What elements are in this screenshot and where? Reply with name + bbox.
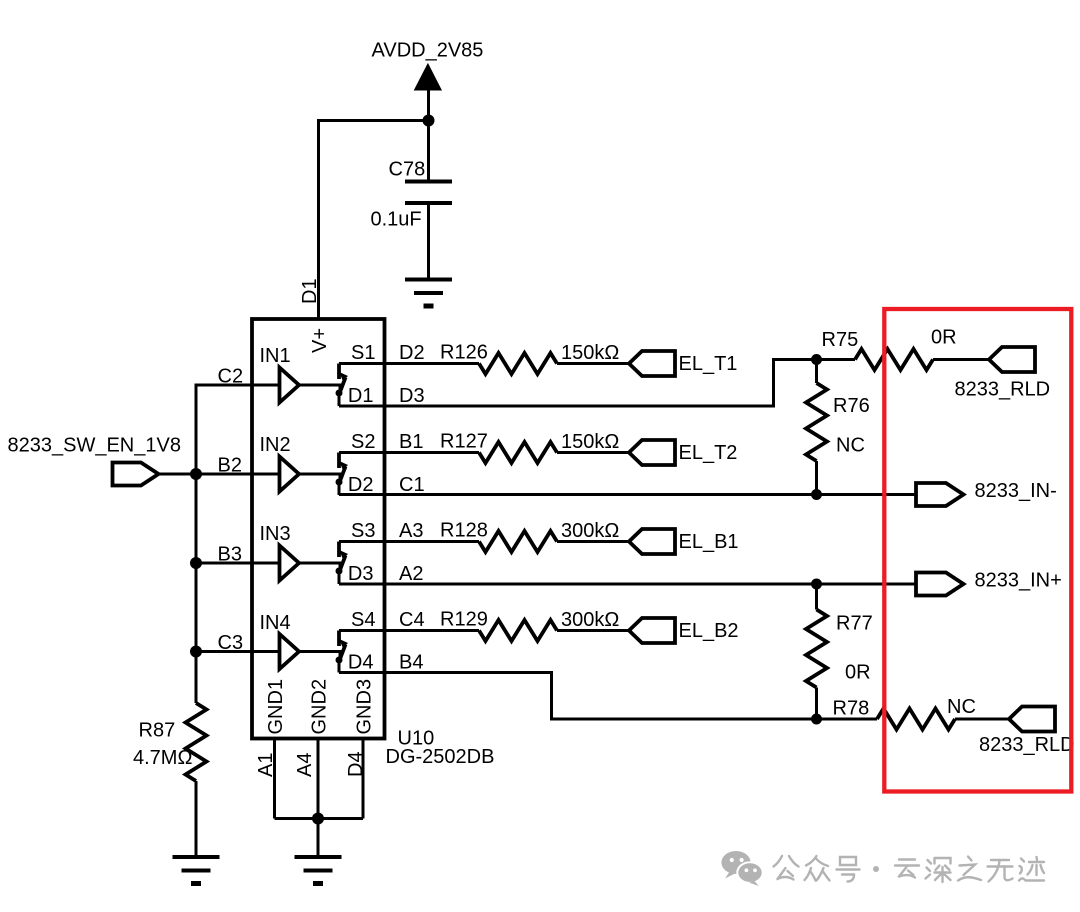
switch SW1 arm <box>340 378 346 393</box>
wire C78 to ground <box>427 203 430 280</box>
wire buffer IN3 output <box>299 563 340 570</box>
svg-text:8233_IN-: 8233_IN- <box>975 480 1057 502</box>
svg-text:IN1: IN1 <box>260 345 291 367</box>
svg-text:EL_B1: EL_B1 <box>679 531 739 553</box>
tag 8233_IN- <box>916 483 964 506</box>
resistor R75 <box>855 349 933 370</box>
svg-text:R75: R75 <box>822 329 859 351</box>
tag EL_T2 <box>629 440 675 465</box>
ground (C78) <box>405 280 452 307</box>
wire resistor R127 to tag EL_T2 <box>557 451 629 454</box>
IC U10 body <box>252 319 385 739</box>
svg-text:EL_B2: EL_B2 <box>679 620 739 642</box>
wire resistor R128 to tag EL_B1 <box>557 540 629 543</box>
tag EL_B1 <box>629 529 675 554</box>
svg-text:D1: D1 <box>299 278 321 304</box>
buffer IN3 input wire <box>196 562 280 565</box>
wire enable bus <box>195 474 198 652</box>
switch SW4 pole junction <box>336 657 343 664</box>
svg-text:IN3: IN3 <box>260 523 291 545</box>
resistor R77 <box>806 610 827 688</box>
svg-text:C4: C4 <box>399 609 425 631</box>
svg-text:300kΩ: 300kΩ <box>561 520 619 542</box>
wire S1 to resistor R126 <box>339 362 479 365</box>
wire GND2/A4 stub <box>317 739 320 858</box>
resistor R128 <box>479 531 557 552</box>
svg-text:R128: R128 <box>440 520 488 542</box>
node A2 junction <box>811 579 822 590</box>
svg-text:D1: D1 <box>348 385 374 407</box>
wire A2 net to tag 8233_IN+ <box>339 583 916 586</box>
wire B4 net route <box>339 673 817 720</box>
svg-text:B2: B2 <box>218 455 242 477</box>
svg-text:8233_SW_EN_1V8: 8233_SW_EN_1V8 <box>8 435 181 457</box>
tag EL_B2 <box>629 618 675 643</box>
svg-text:300kΩ: 300kΩ <box>561 609 619 631</box>
svg-text:8233_RLD: 8233_RLD <box>979 734 1075 756</box>
node ground tie junction <box>312 813 324 825</box>
buffer IN1 <box>280 368 300 403</box>
svg-text:V+: V+ <box>309 328 331 353</box>
wire R87 to ground <box>195 781 198 857</box>
svg-text:GND2: GND2 <box>309 679 331 735</box>
svg-text:R76: R76 <box>833 395 870 417</box>
tag 8233_RLD (top) <box>989 347 1035 372</box>
buffer IN4 input wire <box>196 650 280 653</box>
svg-text:NC: NC <box>836 435 865 457</box>
wire ground tie <box>275 817 364 820</box>
svg-text:S4: S4 <box>351 609 375 631</box>
svg-text:150kΩ: 150kΩ <box>561 431 619 453</box>
svg-text:S1: S1 <box>351 342 375 364</box>
svg-text:R127: R127 <box>440 431 488 453</box>
wire R76 to C1 net <box>815 461 818 495</box>
tag 8233_RLD (bottom) <box>1009 707 1055 732</box>
node bus C3 <box>190 646 202 658</box>
svg-text:C1: C1 <box>399 474 425 496</box>
svg-text:GND3: GND3 <box>354 679 376 735</box>
svg-text:150kΩ: 150kΩ <box>561 342 619 364</box>
resistor R127 <box>479 442 557 463</box>
node R75 junction <box>811 354 822 365</box>
wire power rail to V+ pin <box>319 121 429 320</box>
svg-text:S2: S2 <box>351 431 375 453</box>
wire C1 net to tag 8233_IN- <box>339 493 916 496</box>
svg-text:R78: R78 <box>833 698 870 720</box>
wire GND1/A1 stub <box>273 739 276 819</box>
svg-text:C3: C3 <box>218 632 244 654</box>
switch SW2 arm <box>340 467 346 482</box>
switch SW2 S stub <box>337 453 341 469</box>
wire buffer IN4 output <box>298 652 341 659</box>
svg-text:0.1uF: 0.1uF <box>371 209 422 231</box>
svg-text:R129: R129 <box>440 609 488 631</box>
buffer IN1 input wire <box>196 385 280 474</box>
svg-text:8233_RLD: 8233_RLD <box>955 379 1051 401</box>
svg-text:C2: C2 <box>218 366 244 388</box>
svg-text:EL_T1: EL_T1 <box>679 353 738 375</box>
wire junction to capacitor C78 <box>427 121 430 182</box>
node bus B2 <box>190 468 202 480</box>
ground (R87) <box>173 857 220 884</box>
wire buffer IN1 output <box>299 385 340 392</box>
tag EL_T1 <box>629 351 675 376</box>
switch SW3 D hook <box>338 571 341 584</box>
svg-text:0R: 0R <box>845 662 871 684</box>
wire enable tag to bus <box>159 473 197 476</box>
buffer IN4 <box>280 634 300 669</box>
svg-text:IN2: IN2 <box>260 434 291 456</box>
wire buffer IN2 output <box>299 474 340 481</box>
resistor R78 <box>877 709 955 730</box>
svg-text:D2: D2 <box>348 474 374 496</box>
wire bus to resistor R87 <box>195 652 198 704</box>
wire resistor R129 to tag EL_B2 <box>557 629 629 632</box>
wire junction to R76 <box>815 360 818 384</box>
wire resistor R126 to tag EL_T1 <box>557 362 629 365</box>
wire S4 to resistor R129 <box>339 629 479 632</box>
svg-text:A4: A4 <box>294 753 316 777</box>
wire GND3/D4 stub <box>362 739 365 819</box>
switch SW3 S stub <box>337 542 341 558</box>
resistor R76 <box>806 383 827 461</box>
svg-text:D2: D2 <box>399 342 425 364</box>
resistor R126 <box>479 353 557 374</box>
svg-text:R87: R87 <box>139 720 176 742</box>
switch SW4 D hook <box>338 660 341 673</box>
tag 8233_SW_EN_1V8 <box>113 463 159 486</box>
svg-text:B3: B3 <box>218 544 242 566</box>
svg-text:D3: D3 <box>399 385 425 407</box>
svg-text:D3: D3 <box>348 563 374 585</box>
node C1 junction <box>811 489 822 500</box>
wire R78 to tag 8233_RLD <box>955 718 1009 721</box>
wire R77 to R78 net <box>815 688 818 720</box>
switch SW4 arm <box>340 645 346 660</box>
switch SW1 D hook <box>338 393 341 406</box>
highlight box (red) <box>884 309 1071 792</box>
switch SW2 D hook <box>338 482 341 495</box>
svg-text:NC: NC <box>947 696 976 718</box>
watermark wechat icon <box>721 851 762 886</box>
switch SW3 pole junction <box>336 568 343 575</box>
wire junction to R75 <box>817 358 856 361</box>
svg-text:A3: A3 <box>399 520 423 542</box>
svg-text:GND1: GND1 <box>265 679 287 735</box>
power symbol AVDD_2V85 <box>415 64 442 121</box>
svg-text:4.7MΩ: 4.7MΩ <box>133 747 192 769</box>
svg-text:C78: C78 <box>389 159 426 181</box>
wire S3 to resistor R128 <box>339 540 479 543</box>
buffer IN2 input wire <box>196 473 280 476</box>
capacitor C78 <box>405 182 452 204</box>
svg-text:R126: R126 <box>440 342 488 364</box>
buffer IN2 <box>280 457 300 492</box>
watermark text <box>774 856 1045 882</box>
svg-text:AVDD_2V85: AVDD_2V85 <box>372 40 484 62</box>
wire junction to R78 <box>817 718 878 721</box>
svg-text:S3: S3 <box>351 520 375 542</box>
svg-text:IN4: IN4 <box>260 612 291 634</box>
node power junction <box>423 115 435 127</box>
resistor R129 <box>479 620 557 641</box>
svg-text:B1: B1 <box>399 431 423 453</box>
svg-text:D4: D4 <box>348 652 374 674</box>
switch SW1 pole junction <box>336 390 343 397</box>
tag 8233_IN+ <box>916 573 964 596</box>
svg-text:8233_IN+: 8233_IN+ <box>975 570 1062 592</box>
resistor R87 <box>186 703 207 781</box>
buffer IN3 <box>280 546 300 581</box>
svg-text:R77: R77 <box>836 613 873 635</box>
node R78 junction <box>811 714 822 725</box>
svg-text:A2: A2 <box>399 563 423 585</box>
svg-text:B4: B4 <box>399 652 423 674</box>
svg-text:0R: 0R <box>931 327 957 349</box>
switch SW3 arm <box>340 556 346 571</box>
svg-text:EL_T2: EL_T2 <box>679 442 738 464</box>
wire A2 junction to R77 <box>815 584 818 610</box>
ground (IC) <box>295 857 342 884</box>
switch SW1 S stub <box>337 364 341 380</box>
svg-text:DG-2502DB: DG-2502DB <box>386 746 495 768</box>
wire R75 to tag 8233_RLD <box>933 358 989 361</box>
wire D3 net to R75 junction <box>339 360 817 407</box>
switch SW2 pole junction <box>336 479 343 486</box>
wire S2 to resistor R127 <box>339 451 479 454</box>
switch SW4 S stub <box>337 631 341 647</box>
node bus B3 <box>190 557 202 569</box>
